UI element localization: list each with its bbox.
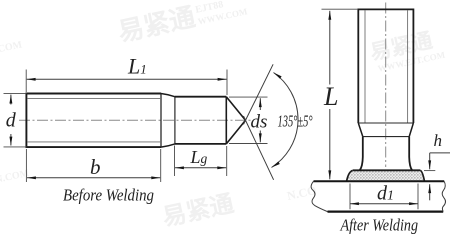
dimension d1 extension right — [417, 184, 419, 210]
cone side upper — [226, 97, 245, 121]
tip cylinder top — [175, 96, 226, 98]
dimension ds extension top — [229, 96, 268, 98]
svg-text:b: b — [90, 155, 101, 179]
dimension L extension top — [322, 8, 359, 10]
taper top — [161, 94, 175, 97]
taper left — [358, 123, 363, 137]
thread crest line bottom — [27, 141, 161, 143]
dimension ds arrow up — [259, 98, 261, 110]
thread crest line left — [364, 10, 366, 123]
svg-text:135°±5°: 135°±5° — [278, 111, 313, 130]
fillet top extension — [424, 170, 435, 172]
weld fillet left shoulder — [347, 170, 353, 181]
dimension h arrow lower — [429, 184, 431, 200]
angle construction line lower — [244, 116, 274, 180]
svg-text:ds: ds — [251, 112, 268, 133]
dimension Lg line — [175, 167, 226, 169]
thread end line — [358, 122, 413, 124]
svg-text:h: h — [434, 131, 443, 150]
angle construction line upper — [244, 64, 274, 124]
dimension h shelf — [430, 152, 450, 154]
stud outline top+sides — [358, 9, 413, 123]
tip cylinder bottom — [175, 143, 226, 145]
dimension d arrow down — [10, 134, 12, 146]
svg-text:L: L — [323, 82, 338, 111]
centerline — [19, 119, 252, 121]
dimension b extension left — [25, 149, 27, 182]
plate top surface — [314, 180, 445, 182]
watermark bottom-center — [160, 190, 236, 231]
plate right break line — [442, 181, 445, 211]
dimension L1 extension left — [25, 70, 27, 93]
dimension L line lower — [329, 109, 331, 179]
dimension h arrow upper — [429, 153, 431, 169]
dimension d extension bottom — [4, 146, 27, 148]
dimension Lg extension right — [226, 146, 228, 176]
dimension Lg extension left — [174, 146, 176, 177]
plate left break line — [311, 181, 327, 211]
weld fillet right shoulder — [420, 170, 424, 181]
watermark top-center — [115, 0, 249, 47]
cone side lower — [226, 120, 245, 144]
taper end line — [363, 136, 409, 138]
centerline vertical — [385, 3, 387, 168]
cone base — [225, 97, 227, 144]
svg-text:d: d — [6, 110, 17, 132]
dimension d1 line — [350, 203, 418, 205]
dimension b extension right — [160, 149, 162, 182]
dimension L1 extension right — [226, 70, 228, 96]
tip neck line — [174, 97, 176, 144]
shank left with flare — [360, 137, 363, 171]
thread end face — [160, 94, 162, 148]
svg-text:After Welding: After Welding — [340, 216, 418, 235]
dimension d1 extension left — [349, 184, 351, 210]
svg-text:Before Welding: Before Welding — [63, 185, 154, 204]
weld fillet top line — [353, 169, 420, 171]
watermark top-right — [368, 26, 446, 74]
dimension d arrow up — [10, 95, 12, 105]
dimension b line — [27, 177, 160, 179]
thread crest line right — [407, 10, 409, 123]
taper bottom — [161, 144, 175, 147]
taper right — [409, 123, 413, 137]
dimension ds arrow down — [259, 131, 261, 143]
stud body outline — [26, 94, 161, 148]
plate bottom — [328, 211, 444, 213]
dimension d extension top — [4, 92, 27, 94]
dimension ds extension bottom — [229, 143, 268, 145]
weld fillet fill — [347, 170, 425, 181]
dimension L1 line — [27, 78, 227, 80]
angle arc 135deg — [272, 73, 299, 168]
dimension L line upper — [329, 11, 331, 85]
shank right with flare — [409, 137, 412, 171]
thread crest line top — [27, 98, 161, 100]
